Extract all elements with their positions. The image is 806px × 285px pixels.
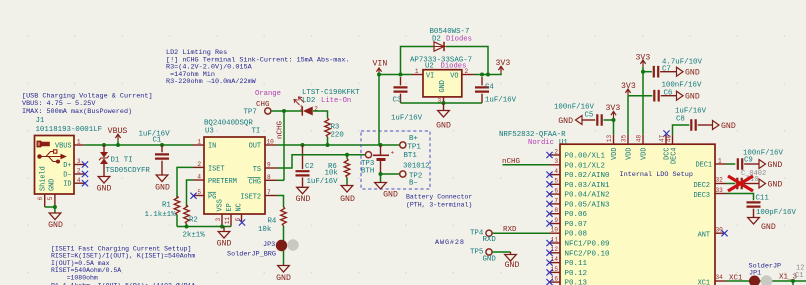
svg-text:9: 9 bbox=[267, 162, 271, 169]
svg-text:P0.07: P0.07 bbox=[565, 221, 588, 229]
svg-text:GND: GND bbox=[383, 191, 398, 200]
U1 pin 33 DEC3 bbox=[693, 187, 726, 200]
svg-text:C8: C8 bbox=[676, 116, 685, 124]
svg-text:3V3: 3V3 bbox=[606, 104, 621, 113]
power VIN bbox=[373, 59, 388, 74]
svg-text:J1: J1 bbox=[36, 117, 45, 125]
svg-text:5: 5 bbox=[47, 196, 54, 200]
svg-text:RISET=K(ISET)/I(OUT), K(ISET)=: RISET=K(ISET)/I(OUT), K(ISET)=540Aohm bbox=[51, 253, 195, 260]
svg-text:D1 TI: D1 TI bbox=[111, 157, 133, 165]
svg-text:B+: B+ bbox=[409, 135, 418, 143]
U3 pin 3 VSS bbox=[215, 214, 222, 227]
U1 pin 48 VDD bbox=[636, 135, 644, 145]
U1 pin 12 NFC2/P0.10 bbox=[546, 246, 610, 258]
svg-text:1uF/16V: 1uF/16V bbox=[307, 178, 339, 186]
USB plug icon bbox=[37, 141, 50, 148]
svg-text:P0.06: P0.06 bbox=[565, 211, 588, 219]
svg-text:C1: C1 bbox=[153, 137, 162, 145]
U1 pin 46 DEC4 bbox=[666, 135, 673, 145]
svg-text:7: 7 bbox=[554, 197, 558, 204]
svg-text:DEC4: DEC4 bbox=[671, 148, 679, 165]
svg-text:CHG: CHG bbox=[249, 179, 261, 187]
svg-text:10118193-0001LF: 10118193-0001LF bbox=[36, 126, 103, 134]
wire VBUS rail bbox=[84, 143, 193, 147]
test point TP4 bbox=[470, 230, 496, 245]
svg-text:DEC3: DEC3 bbox=[693, 192, 710, 200]
svg-text:GND: GND bbox=[761, 223, 776, 232]
svg-text:GND: GND bbox=[217, 240, 232, 249]
U1 pin 7 P0.05/AIN3 bbox=[546, 197, 610, 209]
power VBUS bbox=[108, 127, 128, 145]
J1 pin 4 ID bbox=[74, 177, 88, 186]
U2 pin 2 bbox=[462, 68, 474, 75]
svg-text:GND: GND bbox=[768, 181, 783, 190]
svg-text:BTH: BTH bbox=[361, 167, 374, 175]
svg-text:100nF/16V: 100nF/16V bbox=[554, 104, 594, 112]
test point TP3 bbox=[361, 152, 374, 176]
comment block: LD2 limiting res bbox=[166, 49, 350, 86]
U1 pin 14 P0.11 bbox=[546, 256, 587, 268]
svg-text:10k: 10k bbox=[325, 170, 339, 178]
power 3V3 pin35 bbox=[621, 82, 636, 135]
capacitor C10 dnp bbox=[727, 176, 759, 189]
svg-text:5: 5 bbox=[197, 189, 201, 196]
svg-text:1: 1 bbox=[415, 68, 419, 75]
comment block: USB charging voltage bbox=[22, 93, 153, 116]
svg-text:220: 220 bbox=[331, 132, 344, 140]
U1 pin 13 VDD bbox=[606, 135, 614, 145]
svg-text:NRF52832-QFAA-R: NRF52832-QFAA-R bbox=[499, 131, 566, 139]
svg-text:GND: GND bbox=[436, 122, 451, 131]
svg-text:+: + bbox=[391, 150, 395, 157]
capacitor C8 bbox=[673, 108, 713, 135]
svg-text:3: 3 bbox=[77, 158, 81, 165]
U3 pin 8 CHG bbox=[265, 174, 277, 181]
label nCHG bbox=[502, 158, 550, 166]
U1 pin 1 DEC1 bbox=[695, 157, 726, 169]
capacitor C11 bbox=[727, 194, 797, 218]
svg-text:P0.08: P0.08 bbox=[565, 231, 588, 239]
svg-text:3V3: 3V3 bbox=[621, 82, 636, 91]
U1 pin 15 P0.12 bbox=[546, 266, 587, 278]
U1 pin 30 ANT nc bbox=[698, 226, 728, 239]
label CHG bbox=[256, 101, 270, 109]
resistor R2 bbox=[183, 180, 206, 240]
comment battery connector bbox=[406, 194, 472, 209]
ground U2 bbox=[436, 103, 451, 131]
svg-text:D2: D2 bbox=[432, 35, 441, 43]
capacitor C9 bbox=[727, 150, 784, 179]
svg-text:GND: GND bbox=[768, 161, 783, 170]
wire TP5 gnd bbox=[492, 251, 510, 253]
resistor R1 bbox=[145, 167, 194, 226]
U1 pin 35 VDD bbox=[621, 135, 629, 145]
solder jumper JP3 bbox=[227, 239, 299, 258]
ground C9 flag bbox=[759, 160, 782, 171]
svg-text:AWG#28: AWG#28 bbox=[435, 239, 465, 247]
power 3V3 pin48 bbox=[636, 54, 651, 135]
svg-text:2k±1%: 2k±1% bbox=[183, 232, 206, 240]
svg-text:4: 4 bbox=[197, 174, 201, 181]
svg-text:R3: R3 bbox=[331, 124, 340, 132]
test point TP7 bbox=[244, 108, 271, 117]
J1 pin 1 VBUS bbox=[74, 139, 84, 146]
ground C8 flag bbox=[713, 121, 736, 132]
svg-text:1.1k±1%: 1.1k±1% bbox=[145, 211, 177, 219]
svg-text:Internal LDO Setup: Internal LDO Setup bbox=[620, 171, 693, 179]
svg-text:10: 10 bbox=[551, 227, 559, 234]
svg-text:RXD: RXD bbox=[483, 236, 497, 244]
D1 labels bbox=[106, 157, 151, 175]
svg-text:3: 3 bbox=[554, 158, 558, 165]
svg-text:VBUS: VBUS bbox=[55, 143, 72, 151]
ground C2 bbox=[296, 186, 311, 204]
svg-text:NFC2/P0.10: NFC2/P0.10 bbox=[565, 250, 611, 258]
diode D2 bypass loop bbox=[401, 47, 491, 77]
svg-text:Lite-On: Lite-On bbox=[321, 97, 351, 105]
capacitor C2 bbox=[296, 145, 339, 186]
text internal LDO bbox=[620, 171, 693, 179]
svg-text:Shield: Shield bbox=[40, 166, 48, 191]
LD2 field labels bbox=[255, 89, 360, 105]
svg-text:7: 7 bbox=[267, 189, 271, 196]
svg-text:C1: C1 bbox=[795, 272, 803, 280]
capacitor C4 bbox=[475, 77, 517, 105]
svg-text:TS: TS bbox=[253, 166, 261, 174]
U3 reference bbox=[204, 120, 260, 136]
svg-text:GND: GND bbox=[48, 221, 63, 230]
battery BT1 bbox=[373, 145, 430, 174]
J1 pin names bbox=[40, 143, 72, 191]
svg-text:33: 33 bbox=[716, 187, 724, 194]
svg-text:1uF/16V: 1uF/16V bbox=[675, 108, 707, 116]
wire CHG net bbox=[271, 109, 302, 113]
ground JP3 bbox=[276, 265, 291, 283]
svg-text:Battery Connector: Battery Connector bbox=[406, 194, 472, 201]
ground J1 bbox=[48, 212, 63, 230]
svg-text:R2: R2 bbox=[189, 216, 198, 224]
ground C7 flag bbox=[677, 67, 700, 78]
svg-text:GND: GND bbox=[483, 255, 497, 263]
svg-text:VIN: VIN bbox=[373, 59, 388, 68]
svg-text:1: 1 bbox=[300, 105, 304, 112]
svg-text:LTST-C190KFKT: LTST-C190KFKT bbox=[302, 89, 360, 97]
diode D2 bbox=[434, 42, 446, 51]
J1 pin 2 D- bbox=[74, 168, 88, 177]
svg-text:11: 11 bbox=[224, 217, 231, 225]
ground U3 bbox=[217, 227, 232, 249]
svg-text:P0.13: P0.13 bbox=[565, 280, 588, 285]
wire ISET2 to R4 bbox=[277, 196, 284, 208]
svg-text:IMAX: 500mA max(BusPowered): IMAX: 500mA max(BusPowered) bbox=[22, 108, 132, 116]
svg-text:GND: GND bbox=[340, 195, 355, 204]
svg-text:[ISET1 Fast Charging Current S: [ISET1 Fast Charging Current Settup] bbox=[51, 245, 191, 252]
svg-text:TI: TI bbox=[252, 128, 261, 136]
svg-text:Orange: Orange bbox=[255, 90, 281, 98]
ground C11 bbox=[748, 217, 776, 233]
stub L2 C12 labels bbox=[795, 265, 804, 281]
svg-text:VDD: VDD bbox=[611, 148, 619, 160]
ground C6 flag bbox=[677, 91, 700, 102]
U1 top pin names bbox=[611, 148, 679, 165]
test point TP2 bbox=[400, 171, 423, 188]
wire LED to R3 bbox=[313, 111, 328, 118]
USB trident icon bbox=[38, 150, 66, 163]
U3 pin 4 PRETERM bbox=[193, 174, 204, 181]
svg-text:3: 3 bbox=[215, 217, 222, 221]
svg-text:JP1: JP1 bbox=[749, 269, 761, 277]
svg-text:TP5: TP5 bbox=[470, 248, 483, 256]
svg-text:B–: B– bbox=[409, 180, 418, 188]
wire TS net bbox=[277, 153, 365, 168]
connector J1 reference bbox=[36, 117, 103, 134]
wire U2 gnd rail bbox=[401, 101, 483, 105]
svg-text:DEC2: DEC2 bbox=[693, 182, 710, 190]
op-amp U3 body bbox=[204, 137, 265, 214]
svg-text:GND: GND bbox=[558, 117, 573, 126]
ground C10 flag bbox=[759, 179, 782, 190]
U1 pin 3 P0.01/XL2 bbox=[550, 158, 606, 170]
U1 pin 16 P0.13 bbox=[546, 276, 587, 285]
svg-text:R3-220ohm →10.0mA/22mW: R3-220ohm →10.0mA/22mW bbox=[166, 78, 257, 86]
svg-text:GND: GND bbox=[49, 179, 57, 191]
svg-text:ISET2: ISET2 bbox=[240, 194, 261, 202]
U3 pin 7 ISET2 bbox=[265, 189, 277, 196]
svg-text:32: 32 bbox=[716, 177, 724, 184]
comment block: ISET1 setup bbox=[51, 245, 195, 285]
svg-text:VDD: VDD bbox=[641, 148, 649, 160]
ground TP5 bbox=[505, 252, 520, 270]
svg-text:4: 4 bbox=[554, 168, 558, 175]
grid dots bbox=[27, 36, 785, 274]
svg-text:8: 8 bbox=[554, 207, 558, 214]
svg-text:P0.02/AIN0: P0.02/AIN0 bbox=[565, 172, 611, 180]
svg-text:VI: VI bbox=[426, 72, 434, 80]
wire usb gnd bbox=[45, 205, 57, 213]
U1 pin 11 NFC1/P0.09 bbox=[546, 236, 609, 248]
wire U2 output rail bbox=[474, 73, 501, 77]
svg-text:NC: NC bbox=[236, 203, 244, 211]
capacitor C7 bbox=[643, 59, 702, 78]
diode D1 TVS bbox=[99, 145, 109, 176]
svg-text:48: 48 bbox=[636, 135, 643, 143]
svg-text:R1: R1 bbox=[162, 201, 171, 209]
svg-text:C7: C7 bbox=[662, 66, 671, 74]
U1 pin 34 XC1 bbox=[698, 274, 727, 285]
U3 pin 10 OUT bbox=[265, 139, 277, 146]
ground D1 bbox=[97, 176, 112, 194]
svg-text:P0.05/AIN3: P0.05/AIN3 bbox=[565, 201, 611, 209]
wire U2 input rail bbox=[379, 73, 412, 77]
svg-text:3V3: 3V3 bbox=[636, 54, 651, 63]
wire gnd rail U3 bbox=[177, 225, 231, 229]
svg-text:LD2: LD2 bbox=[302, 97, 315, 105]
test point TP5 bbox=[470, 248, 496, 263]
svg-text:35: 35 bbox=[621, 135, 628, 143]
svg-text:JP3: JP3 bbox=[263, 241, 275, 249]
U3 pin names bbox=[208, 143, 261, 212]
svg-text:TSD05CDYFR: TSD05CDYFR bbox=[106, 167, 151, 175]
U3 pin 1 IN bbox=[193, 139, 204, 146]
svg-text:BQ24040DSQR: BQ24040DSQR bbox=[204, 120, 253, 128]
svg-text:6: 6 bbox=[37, 196, 44, 200]
wire OUT rail bbox=[277, 143, 400, 147]
regulator U2 body bbox=[423, 70, 462, 97]
U2 pin 1 bbox=[412, 68, 424, 75]
svg-text:GND: GND bbox=[296, 195, 311, 204]
svg-text:GND: GND bbox=[155, 184, 170, 193]
svg-text:Diodes: Diodes bbox=[446, 35, 472, 43]
svg-text:1uF/16V: 1uF/16V bbox=[485, 97, 517, 105]
svg-text:3V3: 3V3 bbox=[496, 59, 511, 68]
svg-text:R1-1.1kohm →I(OUT)-5(R1)• (11: R1-1.1kohm →I(OUT)-5(R1)• (1103-Ø/R1A bbox=[51, 281, 195, 285]
U3 pin 5 PG nc bbox=[190, 189, 204, 199]
U1 pin 10 P0.08 bbox=[550, 227, 588, 239]
svg-text:2: 2 bbox=[77, 168, 81, 175]
J1 pin 6 shield bbox=[37, 194, 45, 207]
svg-text:34: 34 bbox=[716, 274, 724, 281]
svg-text:9: 9 bbox=[554, 217, 558, 224]
svg-text:ISET: ISET bbox=[208, 165, 225, 173]
power 3V3 pin13 bbox=[606, 104, 621, 135]
ground C1 bbox=[155, 174, 170, 193]
svg-text:5: 5 bbox=[554, 178, 558, 185]
connector J1 body bbox=[35, 136, 75, 195]
wire TP2 bbox=[379, 172, 400, 176]
svg-text:10: 10 bbox=[267, 139, 275, 146]
svg-text:C6: C6 bbox=[664, 90, 673, 98]
svg-text:2: 2 bbox=[554, 148, 558, 155]
svg-text:C3: C3 bbox=[393, 97, 402, 105]
svg-text:1: 1 bbox=[718, 157, 722, 164]
U3 pin 6 NC bbox=[234, 214, 245, 226]
svg-text:C4: C4 bbox=[485, 84, 494, 92]
svg-text:VSS: VSS bbox=[217, 199, 225, 211]
svg-text:P0.04/AIN2: P0.04/AIN2 bbox=[565, 192, 610, 200]
svg-text:6: 6 bbox=[554, 188, 558, 195]
svg-text:C9: C9 bbox=[744, 156, 753, 164]
svg-text:(PTH, 3-terminal): (PTH, 3-terminal) bbox=[406, 201, 472, 208]
svg-text:100nF/16V: 100nF/16V bbox=[662, 82, 702, 90]
svg-text:P0.11: P0.11 bbox=[565, 260, 588, 268]
svg-text:10k: 10k bbox=[258, 226, 272, 234]
U3 pin 11 EP bbox=[224, 214, 231, 227]
U1 pin 32 DEC2 bbox=[693, 177, 726, 190]
label RXD bbox=[492, 226, 549, 234]
svg-text:Nordic: Nordic bbox=[528, 139, 554, 147]
svg-text:GND: GND bbox=[97, 185, 112, 194]
svg-text:C5: C5 bbox=[585, 112, 594, 120]
svg-text:4: 4 bbox=[77, 177, 81, 184]
U1 pin 8 P0.06 bbox=[546, 207, 587, 219]
svg-text:PRETERM: PRETERM bbox=[208, 178, 237, 186]
U3 pin 2 ISET bbox=[193, 161, 204, 168]
svg-text:100pF/16V: 100pF/16V bbox=[756, 209, 796, 217]
svg-text:P0.12: P0.12 bbox=[565, 270, 588, 278]
svg-text:nCHG: nCHG bbox=[277, 120, 285, 139]
svg-text:SolderJP_BRG: SolderJP_BRG bbox=[227, 251, 276, 259]
ground C5 flag bbox=[558, 116, 582, 127]
dnp cross C10 bbox=[728, 176, 753, 191]
resistor R4 bbox=[258, 207, 286, 265]
test point TP1 bbox=[400, 135, 422, 151]
U1 pin 9 P0.07 bbox=[546, 217, 587, 229]
capacitor C5 bbox=[554, 104, 614, 126]
svg-text:2: 2 bbox=[197, 161, 201, 168]
capacitor C1 bbox=[155, 145, 169, 175]
U2 pin names bbox=[426, 72, 459, 92]
svg-text:IN: IN bbox=[208, 143, 216, 151]
svg-text:ANT: ANT bbox=[698, 232, 710, 240]
label XC1 bbox=[729, 275, 743, 283]
U2 pin 3 gnd bbox=[438, 97, 444, 104]
svg-text:P0.03/AIN1: P0.03/AIN1 bbox=[565, 182, 611, 190]
power 3V3 out bbox=[496, 59, 511, 73]
U1 pin 5 P0.03/AIN1 bbox=[546, 178, 610, 190]
svg-text:GND: GND bbox=[276, 274, 291, 283]
svg-text:PG: PG bbox=[208, 193, 216, 201]
svg-text:46: 46 bbox=[666, 135, 673, 143]
wire VIN riser bbox=[377, 73, 381, 146]
svg-text:GND: GND bbox=[685, 69, 700, 78]
svg-text:GND: GND bbox=[685, 93, 700, 102]
svg-text:GND: GND bbox=[721, 122, 736, 131]
svg-text:P0.01/XL2: P0.01/XL2 bbox=[565, 162, 606, 170]
U1 pin 2 P0.00/XL1 bbox=[546, 148, 605, 160]
U1 pin 4 P0.02/AIN0 bbox=[546, 168, 610, 180]
wire nCHG vertical bbox=[277, 111, 285, 180]
capacitor C6 bbox=[628, 82, 702, 102]
svg-text:OUT: OUT bbox=[249, 143, 261, 151]
svg-text:13: 13 bbox=[606, 135, 613, 143]
U1 pin 6 P0.04/AIN2 bbox=[546, 188, 609, 200]
svg-text:I(OUT)=0.5A max: I(OUT)=0.5A max bbox=[51, 260, 110, 267]
U3 pin 9 TS bbox=[265, 162, 277, 169]
svg-text:GND: GND bbox=[439, 80, 447, 92]
ground R6 bbox=[340, 185, 355, 204]
U1 reference bbox=[499, 131, 568, 147]
D2 labels bbox=[430, 28, 472, 43]
capacitor C3 bbox=[391, 77, 423, 123]
resistor R6 bbox=[325, 155, 350, 185]
ground BT1 bbox=[375, 174, 398, 200]
MCU U1 body bbox=[560, 144, 715, 285]
svg-text:VO: VO bbox=[450, 72, 458, 80]
C1 labels bbox=[139, 130, 171, 144]
solder jumper JP1 bbox=[749, 262, 782, 285]
svg-text:P0.00/XL1: P0.00/XL1 bbox=[565, 153, 606, 161]
svg-text:301012: 301012 bbox=[403, 163, 430, 171]
svg-text:D+: D+ bbox=[63, 162, 71, 170]
graphic dashed box bbox=[361, 131, 430, 189]
wire XC1 net bbox=[727, 279, 806, 285]
svg-text:EP: EP bbox=[226, 203, 234, 211]
U2 reference bbox=[410, 56, 472, 70]
svg-text:1: 1 bbox=[197, 139, 201, 146]
svg-text:XC1: XC1 bbox=[698, 279, 710, 285]
J1 pin 5 gnd bbox=[47, 194, 55, 207]
svg-text:8: 8 bbox=[267, 174, 271, 181]
svg-text:=1080ohm: =1080ohm bbox=[51, 275, 98, 282]
svg-text:D–: D– bbox=[63, 172, 71, 180]
svg-text:C11: C11 bbox=[756, 195, 770, 203]
svg-text:RISET=540Aohm/0.5A: RISET=540Aohm/0.5A bbox=[51, 267, 121, 274]
U1 pin 47 DCC nc bbox=[659, 130, 670, 144]
svg-text:R4: R4 bbox=[268, 218, 277, 226]
svg-text:DEC1: DEC1 bbox=[695, 162, 712, 170]
svg-text:1: 1 bbox=[77, 139, 81, 146]
svg-text:TP1: TP1 bbox=[408, 143, 422, 151]
